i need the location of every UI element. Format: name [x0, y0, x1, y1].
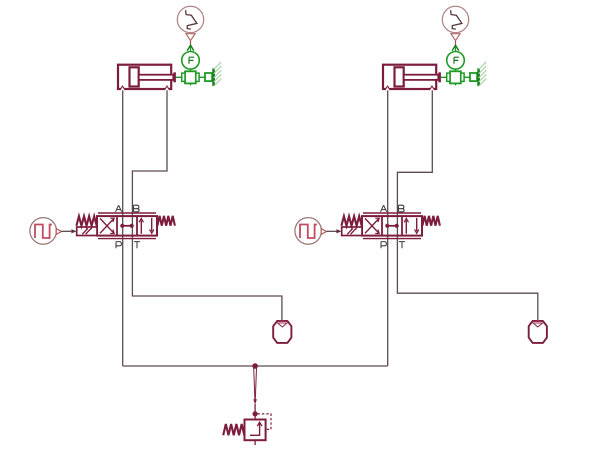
- cylinder CYL1 rod-end port notch: [164, 86, 169, 90]
- signal generator SG2 circle: [295, 218, 322, 245]
- oscilloscope display SC2 circle: [442, 6, 468, 32]
- tank R1 inner triangle: [278, 323, 287, 327]
- cylinder CYL1 body: [118, 65, 171, 89]
- pressurized tank R2: [529, 321, 547, 343]
- tank R2 inner triangle: [533, 323, 542, 327]
- oscilloscope display SC1 circle: [177, 6, 203, 32]
- fixed anchor wall W1: [214, 62, 222, 87]
- cylinder CYL1 rod end cap: [173, 72, 176, 82]
- link rod to transducer 1: [176, 76, 182, 78]
- cylinder CYL2 cap-end port notch: [385, 86, 390, 90]
- force transducer block FT2: [447, 69, 464, 85]
- valve V2 left position crossed arrows: [365, 218, 379, 233]
- signal generator SG2 output port triangle: [321, 229, 326, 235]
- signal link SC1 to force sensor: [187, 41, 194, 52]
- valve V1 port label P: [116, 242, 121, 249]
- force sensor FS2 circle: [447, 52, 465, 70]
- wire relief branch (pressure bus junction down to relief valve RV1): [254, 404, 256, 420]
- cylinder CYL2 rod: [404, 75, 439, 80]
- valve V2 port label B: [399, 205, 405, 212]
- tank R2 top port tick: [536, 320, 540, 322]
- valve V1 right return spring: [157, 216, 175, 226]
- wire B1 (cylinder 1 rod-end port to valve V1 port B): [132, 87, 167, 237]
- force sensor FS1 circle: [182, 52, 200, 70]
- signal generator SG1 square wave: [35, 225, 52, 239]
- valve V1 centre position blocked ports (dots and bar): [120, 224, 134, 228]
- link rod to transducer 2: [441, 76, 447, 78]
- cylinder CYL1 piston: [130, 67, 139, 86]
- oscilloscope SC1 input funnel triangle: [186, 34, 195, 41]
- coupling block CB1: [205, 73, 212, 81]
- wire T2 (valve V2 port T to tank R2): [397, 237, 537, 322]
- signal generator SG1 circle: [30, 218, 57, 245]
- cylinder CYL2 piston: [395, 67, 404, 86]
- wire pressure bus (P line linking V1-P, relief valve and V2-P): [123, 365, 388, 367]
- signal generator SG1 output port triangle: [56, 229, 61, 235]
- fixed anchor wall W2: [479, 62, 487, 87]
- oscilloscope SC2 input funnel triangle: [451, 34, 460, 41]
- force sensor FS2 label F: [454, 57, 459, 64]
- tank R1 top port tick: [280, 320, 284, 322]
- wire relief valve outlet to bottom edge: [254, 440, 256, 445]
- link transducer to coupling 1: [199, 76, 205, 78]
- valve V2 port label P: [381, 242, 386, 249]
- force transducer block FT1: [182, 69, 199, 85]
- coupling block CB2: [470, 73, 477, 81]
- valve V1 proportional bottom rail: [98, 238, 156, 240]
- valve V1 proportional top rail: [98, 212, 156, 214]
- valve V2 proportional bottom rail: [363, 238, 421, 240]
- pressurized tank R1: [273, 321, 291, 343]
- valve V2 right position parallel arrows: [404, 218, 419, 234]
- valve V2 right return spring: [422, 216, 440, 226]
- valve V1 proportional solenoid: [77, 227, 97, 236]
- relief valve RV1 flow arrow: [250, 422, 262, 436]
- relief valve RV1 spring: [223, 424, 244, 435]
- oscilloscope SC1 waveform curve: [186, 10, 197, 29]
- valve V2 centre position blocked ports (dots and bar): [385, 224, 399, 228]
- valve V1 right position parallel arrows: [139, 218, 154, 234]
- valve V2 left return spring: [341, 216, 361, 226]
- valve V2 proportional solenoid: [342, 227, 362, 236]
- signal link SC2 to force sensor: [452, 41, 459, 52]
- flow arrow on relief branch: [253, 368, 257, 405]
- cylinder CYL1 rod: [139, 75, 174, 80]
- valve V1 port label B: [134, 205, 140, 212]
- command arrow SG2 to valve solenoid: [327, 229, 342, 233]
- junction node J1 (bus to relief branch): [253, 364, 258, 369]
- valve V1 port label T: [134, 242, 140, 249]
- relief valve RV1 body: [245, 420, 266, 441]
- wire B2 (cylinder 2 rod-end port to valve V2 port B): [397, 87, 432, 237]
- wire T1 (valve V1 port T to tank R1): [132, 237, 282, 322]
- oscilloscope SC2 waveform curve: [451, 10, 462, 29]
- junction node J2 (relief valve inlet / pilot tap): [253, 412, 257, 416]
- valve V1 port label A: [116, 205, 122, 212]
- wire A2 (cylinder 2 cap-end port to valve V2 port A / P line down to pressure bus): [387, 87, 389, 366]
- command arrow SG1 to valve solenoid: [62, 229, 77, 233]
- valve V2 body 3-position envelope: [362, 216, 422, 236]
- cylinder CYL1 cap-end port notch: [120, 86, 125, 90]
- valve V2 proportional top rail: [363, 212, 421, 214]
- signal generator SG2 square wave: [300, 225, 317, 239]
- valve V2 port label T: [399, 242, 405, 249]
- valve V2 port label A: [381, 205, 387, 212]
- cylinder CYL2 body: [383, 65, 436, 89]
- valve V1 body 3-position envelope: [97, 216, 157, 236]
- wire A1 (cylinder 1 cap-end port to valve V1 port A / P line down to pressure bus): [122, 87, 124, 366]
- link transducer to coupling 2: [464, 76, 470, 78]
- relief valve RV1 pilot line (dashed): [258, 414, 272, 430]
- valve V1 left return spring: [76, 216, 96, 226]
- force sensor FS1 label F: [189, 57, 194, 64]
- cylinder CYL2 rod end cap: [438, 72, 441, 82]
- valve V1 left position crossed arrows: [100, 218, 114, 233]
- cylinder CYL2 rod-end port notch: [429, 86, 434, 90]
